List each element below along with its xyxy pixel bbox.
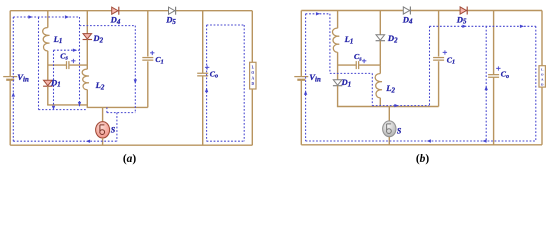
wire: dashed input path left vertical (a) — [12, 17, 14, 141]
svg-text:L1: L1 — [53, 34, 63, 45]
label Vin (a) — [17, 72, 29, 83]
wire: C1 to bus corner (a) — [147, 61, 149, 107]
wire: switch branch from bus (a) — [102, 107, 104, 121]
svg-text:D2: D2 — [387, 33, 398, 44]
battery Vin (a) — [3, 77, 17, 80]
diode D4 (a) — [112, 7, 119, 15]
node arrow down at D1 path end (a) — [52, 106, 55, 110]
wire: dashed jog horizontal y25 (a) — [80, 25, 136, 27]
svg-text:L2: L2 — [385, 83, 395, 94]
svg-text:Cs: Cs — [60, 51, 68, 61]
label + polarity of Cs (a) — [71, 56, 76, 66]
svg-text:D: D — [251, 82, 254, 86]
wire: dashed output loop left (a) — [206, 25, 208, 141]
wire: D2 cathode to L2 (a) — [86, 40, 88, 70]
label D1 (a) — [50, 77, 61, 88]
wire: dashed Cs loop left vertical (a) — [53, 50, 55, 109]
inductor L1 (a) — [43, 28, 50, 51]
svg-text:D4: D4 — [402, 14, 413, 25]
capacitor Cs (a) — [67, 61, 69, 69]
node arrow right on Cs loop (a) — [73, 49, 77, 52]
node arrow right on top dashed (b) — [316, 12, 320, 15]
wire: D1 cathode to bus (a) — [47, 86, 49, 105]
wire: Cs right lead (b) — [359, 64, 381, 66]
switch S (a) — [96, 122, 110, 138]
node arrow right on bus dashed (b) — [394, 104, 398, 107]
wire: dashed output loop right (a) — [243, 25, 245, 141]
node arrow right on top dashed 2 (a) — [65, 15, 69, 18]
wire: dashed vertical at x372 (b) — [371, 73, 373, 105]
battery Vin (b) — [294, 77, 308, 80]
label L2 (b) — [385, 83, 395, 94]
wire: mid bus right segment (a) — [87, 106, 148, 108]
wire: outer loop right side (a) — [251, 11, 253, 146]
wire: outer loop top border (b) — [301, 10, 542, 12]
label L1 (b) — [344, 34, 354, 45]
wire: mid bus step (a) — [86, 105, 88, 108]
label D5 (b) — [456, 14, 467, 25]
label + polarity of C1 (a) — [150, 48, 155, 58]
svg-text:Vin: Vin — [309, 72, 321, 83]
label S (b) — [397, 127, 402, 136]
wire: C1 to bus corner (b) — [438, 61, 440, 106]
wire: switch branch from bus (b) — [388, 107, 390, 121]
wire: C1 branch from top border (b) — [438, 11, 440, 57]
label Cs (b) — [354, 52, 362, 62]
inductor L1 (b) — [332, 28, 339, 52]
diode D5 (b) — [460, 7, 467, 15]
wire: Cs left lead (a) — [48, 64, 67, 66]
label D5 (a) — [165, 15, 176, 26]
svg-text:Vin: Vin — [17, 72, 29, 83]
wire: dashed Cs loop top (a) — [54, 49, 80, 51]
node arrow up on output loop (a) — [205, 88, 208, 92]
svg-text:D1: D1 — [341, 77, 352, 88]
label + polarity of C1 (b) — [442, 48, 447, 58]
wire: C1 branch from top border (a) — [147, 11, 149, 57]
wire: dashed output loop bottom (a) — [207, 140, 245, 142]
svg-text:C1: C1 — [447, 55, 455, 65]
inductor L2 (a) — [82, 69, 89, 89]
capacitor Co (b) — [488, 75, 499, 78]
label sub-figure (b) — [416, 153, 430, 165]
svg-text:S: S — [397, 127, 402, 136]
label + polarity of Co (a) — [205, 62, 210, 72]
capacitor C1 (b) — [433, 58, 444, 61]
diode D2 (b) — [376, 35, 385, 41]
node arrow left on bottom dashed (a) — [86, 140, 90, 143]
svg-text:(b): (b) — [416, 153, 430, 165]
svg-text:S: S — [111, 126, 116, 135]
capacitor Cs (b) — [356, 61, 358, 69]
svg-text:D5: D5 — [165, 15, 176, 26]
node arrow up on left dashed (b) — [304, 91, 307, 95]
wire: Co to bottom border (a) — [202, 76, 204, 145]
wire: dashed horizontal y109 (a) — [39, 109, 87, 111]
wire: dashed input loop left vertical (b) — [305, 14, 307, 141]
svg-text:D4: D4 — [110, 15, 121, 26]
wire: L2 to bus (a) — [86, 90, 88, 105]
label Vin (b) — [309, 72, 321, 83]
wire: outer loop bottom border (b) — [301, 144, 542, 146]
wire: mid bus left segment (a) — [47, 104, 88, 106]
node arrow left on bottom dashed 2 (b) — [482, 139, 486, 142]
svg-text:L1: L1 — [344, 34, 354, 45]
label D4 (a) — [110, 15, 121, 26]
wire: dashed top output path (b) — [430, 25, 536, 27]
diode D1 (a) — [43, 80, 52, 86]
load resistor (a) — [250, 62, 256, 89]
wire: dashed vertical at x38 (a) — [38, 17, 40, 109]
node arrow down on x135 dashed (a) — [134, 79, 137, 83]
svg-text:O: O — [251, 71, 254, 75]
svg-text:A: A — [251, 77, 254, 81]
wire: L1 to Cs node (b) — [337, 52, 339, 80]
wire: dashed vertical at x79 (a) — [79, 17, 81, 107]
wire: dashed bottom return path (b) — [306, 140, 536, 142]
svg-text:+: + — [150, 48, 155, 58]
svg-text:+: + — [362, 56, 367, 66]
svg-text:Co: Co — [501, 70, 509, 80]
wire: dashed along bus (b) — [372, 105, 429, 107]
label D4 (b) — [402, 14, 413, 25]
diode D5 (a) — [169, 7, 176, 15]
label C1 (a) — [155, 55, 163, 65]
wire: outer loop left side (b) — [300, 11, 302, 145]
wire: dashed switch loop top (a) — [107, 112, 135, 114]
wire: Cs right lead (a) — [69, 64, 87, 66]
wire: dashed vertical at x135 (a) — [134, 26, 136, 112]
svg-text:Co: Co — [210, 69, 218, 79]
wire: dashed output loop top (a) — [207, 24, 245, 26]
wire: D2 branch from top border (b) — [379, 11, 381, 35]
label Cs (a) — [60, 51, 68, 61]
label + polarity of Co (b) — [496, 64, 501, 74]
label Co (b) — [501, 70, 509, 80]
diode D1 (b) — [333, 80, 342, 86]
node arrow up on Co dashed (b) — [485, 86, 488, 90]
svg-text:D2: D2 — [92, 33, 103, 44]
node arrow right on top dashed 1 (a) — [28, 15, 32, 18]
load resistor (b) — [539, 66, 545, 87]
label Co (a) — [210, 69, 218, 79]
svg-text:O: O — [541, 73, 544, 77]
wire: L1 branch from top border (b) — [337, 11, 339, 29]
label D1 (b) — [341, 77, 352, 88]
wire: Cs node to L2 (b) — [379, 65, 381, 74]
label L1 (a) — [53, 34, 63, 45]
diode D2 (a) — [83, 34, 92, 40]
inductor L2 (b) — [375, 74, 382, 98]
wire: dashed Co loop vertical (b) — [485, 26, 487, 141]
wire: dashed right vertical at load (b) — [535, 26, 537, 141]
wire: L1 to Cs node (a) — [47, 51, 49, 80]
node arrow left on bottom dashed 1 (b) — [427, 139, 431, 142]
wire: D2 cathode to Cs node (b) — [379, 41, 381, 65]
wire: L1 branch from top border (a) — [47, 11, 49, 28]
label S (a) — [111, 126, 116, 135]
wire: Cs left lead (b) — [338, 64, 357, 66]
wire: outer loop bottom border (a) — [10, 144, 252, 146]
wire: dashed switch loop left (a) — [106, 107, 108, 112]
svg-text:(a): (a) — [123, 153, 137, 165]
svg-text:D5: D5 — [456, 14, 467, 25]
wire: L2 to bus (b) — [379, 98, 381, 107]
label sub-figure (a) — [123, 153, 137, 165]
label D2 (b) — [387, 33, 398, 44]
wire: D1 cathode to bus (b) — [337, 86, 339, 107]
node arrow right on top output dashed 1 (b) — [462, 25, 466, 28]
node arrow right on top output dashed 2 (b) — [520, 25, 524, 28]
label L2 (a) — [95, 80, 105, 91]
svg-text:+: + — [71, 56, 76, 66]
node arrow down on x79 dashed (a) — [78, 102, 81, 106]
wire: mid bus (b) — [337, 106, 439, 108]
svg-text:L2: L2 — [95, 80, 105, 91]
wire: dashed vertical at x330 (b) — [329, 14, 331, 74]
wire: dashed input loop top (b) — [306, 13, 330, 15]
wire: dashed C1 vertical (b) — [429, 26, 431, 105]
wire: outer loop left side (a) — [9, 11, 11, 146]
wire: dashed switch loop right (a) — [116, 113, 118, 142]
wire: dashed input path top (a) — [13, 16, 79, 18]
svg-text:D1: D1 — [50, 77, 61, 88]
capacitor Co (a) — [197, 73, 208, 76]
wire: switch to bottom border (b) — [388, 137, 390, 145]
label D2 (a) — [92, 33, 103, 44]
wire: Co branch from top border (b) — [493, 11, 495, 75]
wire: outer loop right side (b) — [541, 11, 543, 145]
label + polarity of Cs (b) — [362, 56, 367, 66]
svg-text:C1: C1 — [155, 55, 163, 65]
wire: Co branch from top border (a) — [202, 11, 204, 73]
wire: dashed bottom return path (a) — [13, 140, 117, 142]
capacitor C1 (a) — [142, 58, 153, 61]
wire: switch to bottom border (a) — [102, 138, 104, 145]
label C1 (b) — [447, 55, 455, 65]
wire: dashed horizontal y73 (b) — [330, 72, 372, 74]
wire: Co to bottom border (b) — [493, 77, 495, 144]
node arrow up on left dashed (a) — [12, 92, 15, 96]
diode D4 (b) — [403, 7, 410, 15]
wire: D2 branch from top border (a) — [86, 11, 88, 34]
wire: outer loop top border (a) — [10, 10, 252, 12]
switch S (b) — [383, 121, 396, 137]
